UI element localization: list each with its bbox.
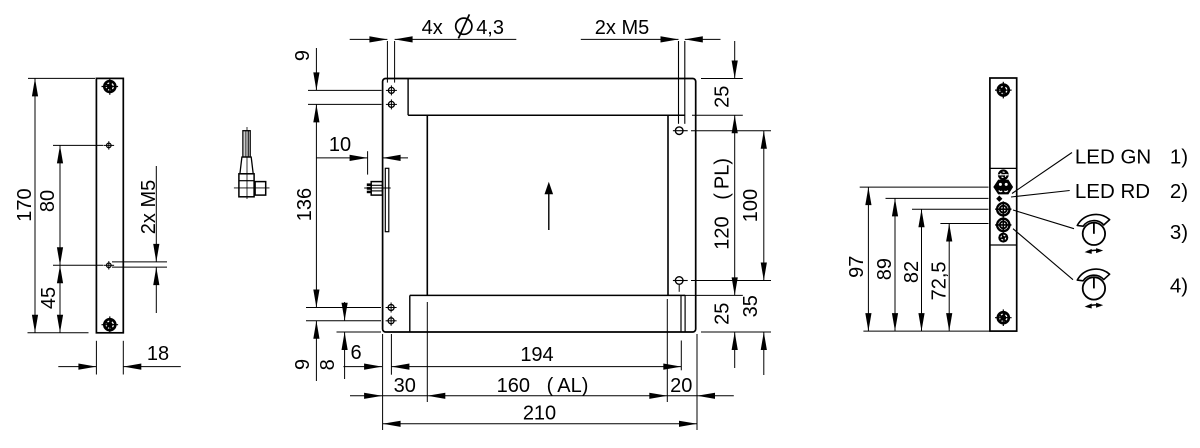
svg-text:4): 4) — [1170, 275, 1188, 298]
socket nut on frame left edge — [367, 183, 371, 193]
dim 25 bottom arrow — [734, 332, 736, 368]
window right edge — [667, 115, 669, 295]
svg-text:45: 45 — [38, 287, 60, 309]
knob icon 4 — [1077, 269, 1109, 308]
left view upper M5 hole — [104, 141, 115, 149]
svg-text:25: 25 — [712, 303, 734, 325]
svg-text:20: 20 — [670, 375, 692, 397]
svg-text:1): 1) — [1170, 145, 1188, 168]
svg-text:100: 100 — [740, 189, 762, 222]
right view M8 connector hex — [993, 180, 1013, 195]
dim 4x 4,3 extension lines — [386, 41, 388, 83]
left view lower M5 hole — [104, 261, 115, 269]
right side view profile bar — [990, 78, 1017, 331]
svg-text:LED RD: LED RD — [1075, 180, 1150, 203]
dim 4x 4,3 line — [350, 38, 388, 40]
svg-text:136: 136 — [294, 188, 316, 221]
right dims extension lines — [701, 78, 743, 80]
frame bottom-left screw holes — [386, 303, 397, 313]
dim 10 line — [316, 157, 367, 159]
svg-text:194: 194 — [520, 344, 553, 366]
dim 9 bottom-left arrow — [315, 321, 317, 381]
dim 18 line — [58, 366, 96, 368]
dim 210 line — [383, 423, 697, 425]
dim 210 extension lines — [382, 334, 384, 430]
svg-text:82: 82 — [901, 261, 923, 283]
dim 170 line — [34, 78, 36, 332]
connector body — [239, 174, 254, 197]
dim 136 line — [315, 104, 317, 307]
left side view profile bar — [96, 78, 123, 332]
svg-text:10: 10 — [329, 134, 351, 156]
leader line knob 3 — [1013, 210, 1074, 229]
socket axis line — [364, 187, 391, 189]
dim 2x M5 extension lines through top bar — [678, 41, 680, 124]
dim 120 PL line — [734, 115, 736, 295]
svg-text:4x: 4x — [422, 17, 443, 39]
frame outer contour — [383, 79, 696, 333]
mounting plate inner line — [385, 168, 389, 231]
dim 35 arrow — [763, 332, 765, 375]
svg-text:210: 210 — [523, 402, 556, 424]
dim 170 extension line top — [28, 77, 95, 79]
label 2x M5 lower arrow — [155, 267, 157, 313]
svg-text:72,5: 72,5 — [929, 261, 951, 300]
dim 160 extension lines — [426, 302, 428, 402]
left view bottom torx screw — [102, 316, 119, 333]
connector nut — [255, 182, 266, 196]
dim 25 top arrows — [734, 41, 736, 79]
window left edge — [426, 115, 428, 295]
right view top torx screw — [995, 82, 1012, 99]
right view LED diamond — [996, 196, 1002, 202]
svg-text:30: 30 — [394, 375, 416, 397]
svg-text:9: 9 — [292, 359, 314, 370]
dim 160 line — [427, 395, 667, 397]
right view section lines — [990, 167, 1017, 169]
svg-text:25: 25 — [712, 86, 734, 108]
dim 82 line — [921, 209, 923, 331]
knob icon 3 — [1077, 214, 1109, 253]
dim 72,5 line — [948, 224, 950, 332]
right view potentiometer hole 4 — [997, 219, 1009, 231]
dim 80 extension lines — [53, 144, 103, 146]
svg-text:2x M5: 2x M5 — [595, 17, 649, 39]
svg-text:160 ( AL): 160 ( AL) — [497, 375, 589, 397]
dim 18 extension lines — [95, 341, 97, 375]
svg-text:97: 97 — [846, 256, 868, 278]
left view top torx screw — [102, 78, 119, 95]
svg-text:3): 3) — [1170, 221, 1188, 244]
leader line LED GN — [1012, 153, 1072, 194]
svg-text:LED GN: LED GN — [1075, 145, 1151, 168]
frame bottom bar right end double line — [680, 295, 682, 331]
svg-text:80: 80 — [37, 190, 59, 212]
frame top-left screw holes — [386, 85, 397, 95]
right view lower element — [998, 233, 1008, 243]
frame top bar left edge — [407, 79, 409, 116]
dim 20 line — [667, 395, 697, 397]
dim 45 line — [59, 265, 61, 333]
left view M5 thread lines — [112, 261, 167, 263]
right view bottom torx screw — [995, 309, 1012, 326]
svg-text:120 ( PL): 120 ( PL) — [712, 158, 734, 250]
M5 hole top right — [675, 127, 683, 135]
frame bottom bar top edge — [410, 294, 685, 296]
dim 80 line — [59, 145, 61, 265]
connector cable sleeve — [243, 131, 250, 157]
dim 8 arrows — [344, 302, 346, 321]
dim 170 extension line bottom — [28, 332, 89, 334]
dim 9 top-left extension lines — [308, 89, 382, 91]
right view potentiometer hole 3 — [997, 203, 1009, 215]
right view dim extension lines — [860, 186, 989, 188]
dim 9 top-left arrows — [315, 48, 317, 90]
connector centerline — [246, 127, 248, 199]
svg-text:18: 18 — [147, 343, 169, 365]
dim 10 tick — [367, 151, 369, 174]
right view element screw — [998, 169, 1009, 180]
svg-text:89: 89 — [874, 258, 896, 280]
svg-text:8: 8 — [317, 359, 339, 370]
dim 89 line — [894, 198, 896, 331]
frame top bar bottom edge — [408, 114, 685, 116]
M5 hole bottom right — [675, 277, 683, 285]
svg-text:4,3: 4,3 — [476, 17, 504, 39]
dim 9 bottom-left extension lines — [306, 307, 381, 309]
svg-text:2): 2) — [1170, 180, 1188, 203]
label 2x M5 upper arrow — [155, 166, 157, 262]
socket body on frame left edge — [371, 182, 382, 196]
dim 2x M5 top line — [581, 38, 679, 40]
dim 8 extension line — [337, 331, 382, 333]
connector axis line — [234, 187, 270, 189]
dim 100 line — [763, 131, 765, 281]
dim 97 line — [867, 187, 869, 331]
svg-text:170: 170 — [14, 188, 36, 221]
frame bottom bar left edge — [409, 295, 411, 332]
dim 194 line — [391, 366, 681, 368]
svg-text:35: 35 — [740, 295, 762, 317]
leader line knob 4 — [1013, 229, 1073, 280]
direction arrow in window — [548, 192, 550, 230]
svg-text:9: 9 — [292, 50, 314, 61]
dim 6 line — [343, 366, 382, 368]
svg-text:6: 6 — [350, 342, 361, 364]
dim 194 extension lines — [390, 334, 392, 375]
leader line LED RD — [1011, 191, 1070, 198]
dim 30 line — [350, 395, 382, 397]
connector cone — [240, 157, 253, 174]
